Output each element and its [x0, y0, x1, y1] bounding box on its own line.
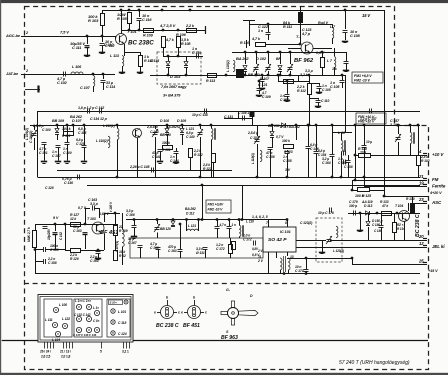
- junction tuning feed j280: [279, 74, 282, 77]
- wire r135 d: [230, 254, 232, 259]
- diode D104: [55, 129, 59, 135]
- junction j397-213: [396, 212, 399, 215]
- transistor T mixer s2: [133, 129, 142, 138]
- capacitor C152: [362, 146, 367, 148]
- wire c164b d: [332, 156, 334, 177]
- svg-text:D 112: D 112: [186, 212, 194, 216]
- wire c163e d: [85, 235, 87, 249]
- wire c179 gnd col: [360, 213, 362, 230]
- wire tuner left edge: [37, 111, 39, 177]
- svg-text:21: 21: [418, 174, 424, 179]
- wire L107 d: [93, 86, 95, 92]
- svg-text:R 134: R 134: [397, 227, 405, 231]
- wire demod out link: [296, 247, 352, 249]
- capacitor C164b: [330, 155, 335, 157]
- junction j35-249: [34, 248, 37, 251]
- wire D103a u: [168, 56, 170, 61]
- wire r115 u: [322, 52, 324, 57]
- junction j239-219: [238, 218, 241, 221]
- inductor L121c: [187, 229, 198, 231]
- svg-text:FM1 +10 V: FM1 +10 V: [358, 115, 375, 119]
- adjustment core P3 top circ: [124, 300, 128, 304]
- wire r118 link: [355, 155, 358, 157]
- svg-text:L 113: L 113: [110, 54, 120, 58]
- junction j296-125: [295, 124, 298, 127]
- wire disc gnd lead: [322, 240, 324, 252]
- wire if left col: [35, 248, 37, 251]
- resistor R119: [64, 132, 74, 136]
- wire t103 c col: [104, 213, 106, 222]
- varactor box D103: [157, 52, 201, 84]
- trimmer capacitor C157t: [395, 134, 401, 142]
- svg-text:10 p C 138: 10 p C 138: [192, 113, 208, 117]
- capacitor C119: [197, 54, 199, 59]
- wire r129 d: [115, 235, 117, 250]
- wire if mid bus: [126, 219, 287, 221]
- wire c131 d: [84, 147, 86, 161]
- svg-text:L 106: L 106: [72, 65, 82, 69]
- wire l119 d: [341, 152, 343, 177]
- junction AGC j1: [86, 35, 89, 38]
- junction j211-125: [210, 124, 213, 127]
- wire c159r d: [348, 162, 350, 177]
- junction j360-213: [359, 212, 362, 215]
- wire C121 u: [262, 75, 264, 79]
- svg-text:C 159: C 159: [338, 161, 347, 165]
- coil pack panel 3: [107, 299, 130, 337]
- capacitor C146: [306, 147, 311, 149]
- svg-text:FM2 +10 V: FM2 +10 V: [358, 120, 375, 124]
- svg-text:FM1 +0,8V: FM1 +0,8V: [208, 203, 224, 207]
- svg-text:C 111: C 111: [72, 45, 81, 50]
- trimmer capacitor C125: [265, 64, 271, 72]
- junction j117-125: [116, 124, 119, 127]
- adjustment core L111: [52, 322, 57, 327]
- svg-text:BB 120: BB 120: [160, 133, 171, 137]
- capacitor C141: [158, 150, 163, 152]
- wire pin25 col: [352, 258, 354, 265]
- pinout drawing BF 451 pinout: [184, 300, 204, 319]
- svg-text:C 100: C 100: [63, 151, 72, 155]
- capacitor C117: [56, 146, 61, 148]
- svg-text:100 k: 100 k: [282, 139, 290, 143]
- wire c146 d: [308, 148, 310, 177]
- wire d108 u: [167, 125, 169, 128]
- capacitor C111: [85, 46, 90, 49]
- wire t104 c up: [408, 203, 410, 211]
- svg-text:2,5-6 p: 2,5-6 p: [247, 131, 258, 135]
- trimmer capacitor C153: [254, 136, 260, 144]
- wire main tuned bus: [30, 125, 355, 127]
- junction tuning feed j290: [289, 74, 292, 77]
- ground C117 gnd: [55, 162, 61, 164]
- resistor R130b: [114, 251, 118, 261]
- wire D103b u: [186, 56, 188, 61]
- svg-text:FM2 -10 V: FM2 -10 V: [354, 79, 371, 83]
- trimmer capacitor C120: [253, 64, 259, 72]
- svg-text:C 167: C 167: [128, 241, 137, 245]
- svg-text:e: e: [181, 311, 183, 315]
- wire ic out1: [268, 252, 270, 274]
- rf element lower lead x245: [245, 71, 247, 75]
- wire C108 d: [345, 33, 347, 40]
- svg-text:SO 42 P: SO 42 P: [268, 237, 287, 243]
- svg-text:BB 109: BB 109: [52, 119, 65, 123]
- junction j134-219: [133, 218, 136, 221]
- svg-text:C 180: C 180: [372, 223, 380, 227]
- svg-text:R 109: R 109: [143, 34, 154, 38]
- c100c gnd lead: [318, 102, 320, 106]
- junction j200-125: [199, 124, 202, 127]
- coil box pin d1: [126, 342, 128, 349]
- svg-text:C 180: C 180: [374, 229, 382, 233]
- capacitor C170: [203, 248, 208, 250]
- c100c link: [309, 98, 318, 100]
- capacitor C178: [227, 227, 232, 229]
- svg-text:c: c: [205, 311, 207, 315]
- wire l115 d: [211, 140, 213, 177]
- wire c161 d: [55, 235, 57, 249]
- ground C131 gnd: [81, 162, 87, 164]
- wire l116 u: [122, 213, 124, 229]
- svg-text:C 172: C 172: [243, 238, 252, 242]
- adjustment core P2 c8: [94, 327, 99, 332]
- svg-text:BB 130: BB 130: [268, 124, 280, 128]
- wire l119 lower col: [364, 170, 366, 187]
- ground C164 gnd: [95, 259, 101, 260]
- wire drain up: [300, 40, 302, 44]
- wire/pin JEL out: [352, 246, 427, 248]
- inductor TR1 sec: [288, 258, 290, 270]
- svg-text:BA 262: BA 262: [185, 207, 196, 211]
- ground C101 gnd: [41, 162, 47, 164]
- wire upper bus: [88, 111, 420, 113]
- junction rf bus j280: [279, 51, 282, 54]
- wire r125 wr: [369, 190, 384, 192]
- svg-text:C 141: C 141: [152, 155, 161, 159]
- wire c154 u: [316, 125, 318, 151]
- diode D110: [270, 132, 274, 138]
- svg-text:BF 962: BF 962: [294, 58, 314, 64]
- junction j115-213: [114, 212, 117, 215]
- wire r135 u: [230, 238, 232, 245]
- wire c157 d: [398, 142, 400, 155]
- junction j 342-75: [341, 74, 344, 77]
- svg-text:C 110: C 110: [321, 99, 329, 103]
- junction rf bus j256: [255, 51, 258, 54]
- coil box pin a1: [47, 342, 49, 349]
- svg-text:R 111: R 111: [283, 25, 292, 29]
- svg-text:JAT-be: JAT-be: [6, 71, 19, 76]
- svg-text:JEL ki: JEL ki: [432, 244, 445, 249]
- svg-text:1 n: 1 n: [258, 29, 264, 33]
- junction j 168-56: [167, 55, 170, 58]
- svg-text:L 110(1): L 110(1): [103, 124, 116, 128]
- resistor R130: [411, 204, 415, 213]
- svg-text:BC 238 C: BC 238 C: [156, 323, 179, 329]
- wire c157 u: [398, 125, 400, 134]
- pinout drawing BF 963: [221, 301, 258, 325]
- wire r129 u: [115, 213, 117, 225]
- wire asc link: [384, 196, 428, 198]
- wire c167 d: [140, 247, 142, 258]
- capacitor C121: [260, 80, 265, 82]
- wire rf gate col: [249, 24, 251, 46]
- junction rail junction x345: [344, 9, 347, 12]
- svg-text:C 130: C 130: [64, 181, 73, 185]
- coil pack panel 2: [74, 299, 102, 337]
- diode D112: [171, 221, 175, 227]
- rf element lower lead x290: [290, 71, 292, 75]
- wire disc in: [316, 240, 326, 242]
- wire c143 u: [155, 125, 157, 129]
- junction j332-177: [331, 176, 334, 179]
- wire e-link: [124, 52, 140, 54]
- wire blob down: [252, 117, 254, 125]
- svg-text:C 143: C 143: [150, 130, 159, 134]
- wire r134 d: [394, 232, 396, 240]
- wire ic in2: [242, 185, 244, 220]
- junction j157-219: [156, 218, 159, 221]
- resistor R102: [139, 56, 143, 67]
- wire ic out3: [287, 252, 289, 256]
- junction R103-AGC j: [101, 35, 104, 38]
- resistor R129: [114, 226, 118, 236]
- junction tr1 bus j: [283, 272, 286, 275]
- ground C108 gnd: [342, 42, 348, 43]
- wire c100 d: [34, 138, 36, 150]
- gate terminal bar: [243, 20, 255, 22]
- inductor L106: [71, 72, 83, 74]
- svg-text:C 100: C 100: [42, 128, 51, 132]
- wire d112 u: [173, 220, 175, 221]
- junction j84-125: [83, 124, 86, 127]
- junction l121 j1: [185, 218, 188, 221]
- junction j67-125: [66, 124, 69, 127]
- wire d104 u: [57, 125, 59, 128]
- adjustment core C118: [111, 320, 115, 324]
- wire/pin 15V in: [352, 263, 427, 265]
- svg-text:C 102: C 102: [57, 81, 68, 85]
- adjustment core P2 c1: [76, 304, 81, 309]
- svg-text:3,2 k: 3,2 k: [300, 73, 309, 77]
- svg-text:R 131: R 131: [162, 148, 171, 152]
- capacitor C159r: [346, 161, 351, 163]
- resistor R113: [208, 74, 217, 78]
- svg-text:R 108: R 108: [181, 42, 191, 46]
- wire C111 lead: [87, 36, 89, 44]
- capacitor C101: [42, 143, 47, 145]
- svg-text:BF 451: BF 451: [183, 323, 200, 329]
- svg-text:2,0 1,8: 2,0 1,8: [61, 355, 71, 359]
- wire t s2 d: [137, 138, 139, 177]
- capacitor C142a: [88, 109, 90, 114]
- capacitor C154: [314, 152, 319, 154]
- wire c161 u: [55, 224, 57, 231]
- resistor R110: [256, 43, 266, 47]
- wire c175t d: [157, 233, 159, 239]
- wire gnd bus 3: [87, 185, 420, 187]
- svg-text:C 158: C 158: [48, 261, 57, 265]
- svg-text:C 114: C 114: [106, 85, 115, 89]
- capacitor C147: [370, 109, 372, 114]
- wire l120 u: [410, 125, 412, 132]
- wire c160 wl: [35, 249, 43, 251]
- wire l119 u: [341, 132, 343, 140]
- junction j287-177: [286, 176, 289, 179]
- junction j 93-74: [92, 73, 95, 76]
- resistor R126: [71, 249, 81, 253]
- junction j257-177: [256, 176, 259, 179]
- wire c177 u: [217, 220, 219, 227]
- svg-text:R 125: R 125: [362, 194, 372, 198]
- svg-text:C 154: C 154: [318, 153, 326, 157]
- wire c155 u: [287, 150, 289, 151]
- svg-text:L 101: L 101: [118, 310, 126, 314]
- svg-text:C 132 C 142: C 132 C 142: [74, 313, 91, 317]
- junction j259-81: [258, 80, 261, 83]
- svg-text:0,7 V: 0,7 V: [276, 135, 284, 139]
- wire c160 wr: [45, 249, 65, 251]
- connector stub: [25, 89, 40, 91]
- wire R108 d: [178, 48, 180, 57]
- capacitor C122: [266, 33, 271, 35]
- svg-text:C 125: C 125: [76, 142, 85, 146]
- r110 term: [246, 40, 248, 48]
- svg-text:C 109: C 109: [262, 95, 271, 99]
- ground c179 gnd: [357, 231, 363, 232]
- wire mix out col: [345, 75, 347, 132]
- wire/pin ferrite line: [364, 185, 427, 187]
- junction j341-177: [340, 176, 343, 179]
- svg-text:C 164: C 164: [322, 161, 331, 165]
- junction j98-250: [97, 249, 100, 252]
- capacitor C145: [152, 168, 154, 173]
- wire c173 u: [306, 258, 308, 269]
- capacitor C179: [354, 211, 356, 216]
- svg-text:1,8 p 1,2 p C 142: 1,8 p 1,2 p C 142: [78, 106, 104, 110]
- svg-text:D 102: D 102: [256, 56, 267, 61]
- wire C110 lead: [124, 52, 126, 56]
- wire l116 d: [122, 247, 124, 265]
- junction j 300-44: [299, 43, 302, 46]
- wire r117 ext: [283, 81, 309, 83]
- resistor R132: [189, 149, 193, 158]
- svg-text:C 107: C 107: [80, 86, 91, 90]
- junction j 186-75: [185, 74, 188, 77]
- inductor L110-2 shield: [233, 60, 235, 71]
- capacitor C105: [340, 81, 345, 83]
- wire l117a u: [332, 24, 334, 28]
- wire r124 d: [418, 165, 420, 177]
- C160 caps: [43, 247, 45, 252]
- svg-text:C 162: C 162: [59, 232, 63, 240]
- wire c166 u: [134, 220, 136, 226]
- svg-text:FM2 -10 V: FM2 -10 V: [208, 208, 224, 212]
- junction j 178-56: [177, 55, 180, 58]
- wire rf bus right: [290, 52, 346, 54]
- wire d103a d: [168, 67, 170, 75]
- resistor R100: [187, 29, 197, 33]
- svg-text:3,3 p: 3,3 p: [90, 202, 99, 206]
- wire L113 d: [122, 66, 124, 72]
- junction r125 j: [351, 189, 354, 192]
- capacitor C116: [137, 19, 142, 21]
- wire drain link: [313, 48, 332, 50]
- resistor R134: [393, 223, 397, 233]
- ground C106b gnd: [316, 93, 322, 94]
- wire c177 d: [217, 229, 219, 238]
- svg-text:R 126: R 126: [70, 257, 79, 261]
- resistor R135: [229, 245, 233, 254]
- wire R103 top: [102, 10, 104, 13]
- svg-text:C 124: C 124: [118, 332, 127, 336]
- wire r132 d: [190, 158, 192, 171]
- svg-text:D 108: D 108: [160, 119, 169, 123]
- capacitor C167: [138, 246, 143, 248]
- junction j117-177: [116, 176, 119, 179]
- wire osc link: [224, 118, 252, 120]
- coil box pin d2: [129, 342, 131, 349]
- coil box pin b1: [66, 342, 68, 349]
- wire c155 d: [287, 153, 289, 177]
- wire stage3 vert 238: [238, 111, 240, 118]
- svg-text:BA 262: BA 262: [236, 56, 249, 61]
- svg-text:BC 238C: BC 238C: [128, 40, 154, 47]
- junction ic pin8 j: [286, 218, 289, 221]
- wire c157b u: [287, 81, 289, 94]
- wire r117 wr: [293, 81, 298, 83]
- junction j65-224: [64, 223, 67, 226]
- rf element lower lead x268: [268, 71, 270, 75]
- svg-text:AGC-be: AGC-be: [5, 33, 21, 38]
- svg-text:BB 120: BB 120: [248, 73, 260, 77]
- inductor L107: [93, 76, 95, 87]
- wire C114 l: [103, 74, 105, 79]
- junction j 103-74: [102, 73, 105, 76]
- ground L113 gnd: [119, 73, 125, 74]
- wire C121 d: [262, 81, 264, 87]
- resistor R122: [212, 154, 216, 163]
- wire l119 top: [332, 132, 352, 134]
- wire c178 u: [229, 220, 231, 227]
- voltage note box: [352, 72, 383, 83]
- wire l115 u: [211, 125, 213, 128]
- wire rf bus: [232, 52, 290, 54]
- wire c155a d: [270, 149, 272, 177]
- svg-text:R 105: R 105: [117, 17, 128, 21]
- wire tr1 d2: [288, 270, 290, 274]
- wire rf v1: [245, 52, 247, 64]
- coil box pin a3: [53, 342, 55, 349]
- junction j73-125: [72, 124, 75, 127]
- svg-text:IC 101: IC 101: [280, 230, 291, 234]
- svg-text:10 k: 10 k: [360, 151, 366, 155]
- resistor R117: [284, 80, 294, 84]
- ground C111 gnd: [84, 56, 90, 57]
- ground C109c gnd: [256, 96, 262, 97]
- ground c109b gnd: [343, 71, 349, 72]
- svg-text:ASC: ASC: [431, 200, 442, 205]
- capacitor C142b: [100, 109, 102, 114]
- resistor R123: [284, 145, 294, 149]
- c109c gnd lead: [259, 90, 261, 94]
- svg-text:3× BA 379: 3× BA 379: [163, 94, 181, 98]
- wire d104 d: [57, 134, 59, 140]
- ground C100c gnd: [315, 107, 321, 108]
- svg-text:1 n: 1 n: [232, 223, 236, 227]
- adjustment core L100: [53, 307, 58, 312]
